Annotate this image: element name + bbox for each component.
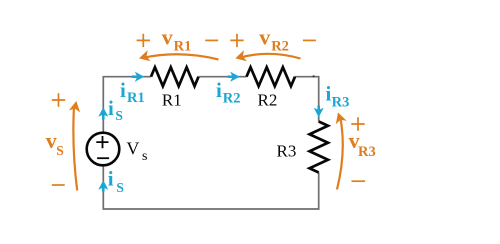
wire top-left segment <box>103 77 151 133</box>
minus sign v_R3 <box>352 180 366 182</box>
svg-text:R2: R2 <box>223 91 241 107</box>
minus sign v_R2 <box>303 39 316 41</box>
svg-text:R1: R1 <box>127 90 145 106</box>
svg-text:S: S <box>115 108 123 123</box>
svg-text:R1: R1 <box>174 38 192 54</box>
current arrow i_R1 on top wire <box>132 72 145 82</box>
svg-text:i: i <box>326 82 332 106</box>
svg-text:R3: R3 <box>277 141 297 160</box>
svg-text:S: S <box>56 143 64 158</box>
arrowhead v_R1 <box>138 50 151 64</box>
voltage arc v_R2 <box>240 54 301 59</box>
svg-text:R1: R1 <box>162 91 182 110</box>
svg-text:s: s <box>142 149 147 164</box>
current arrow i_S below source (up) <box>98 180 108 191</box>
wire top right segment and right drop to R3 <box>295 77 319 122</box>
svg-text:R2: R2 <box>258 90 278 109</box>
junction dot on top wire <box>312 75 314 77</box>
voltage arc v_R3 <box>337 116 343 190</box>
minus sign v_S <box>52 184 65 186</box>
plus sign v_R2 <box>230 34 243 47</box>
minus sign inside source <box>97 157 109 159</box>
current arrow i_S above source (up) <box>98 107 108 119</box>
svg-text:i: i <box>108 166 114 190</box>
resistor R2 <box>247 67 296 86</box>
svg-text:i: i <box>216 78 222 102</box>
plus sign v_R1 <box>137 34 150 47</box>
resistor R1 <box>151 67 199 86</box>
wire top middle segment between R1 and R2 <box>199 76 247 78</box>
plus sign v_R3 <box>351 117 364 130</box>
arrowhead v_R3 <box>333 111 347 125</box>
minus sign v_R1 <box>205 39 218 41</box>
arrowhead v_S <box>69 100 82 112</box>
svg-text:i: i <box>108 96 114 120</box>
current arrow i_R2 on top wire <box>228 72 240 82</box>
arrowhead v_R2 <box>234 50 247 64</box>
svg-text:R3: R3 <box>358 144 376 160</box>
svg-text:S: S <box>116 180 124 195</box>
wire right below R3, bottom, left up to source <box>103 166 318 210</box>
svg-text:v: v <box>162 24 173 49</box>
svg-text:v: v <box>259 24 270 49</box>
voltage arc v_S <box>73 106 77 191</box>
resistor R3 <box>310 122 329 173</box>
voltage source V1 circle <box>87 133 120 166</box>
voltage arc v_R1 <box>143 54 219 59</box>
svg-text:V: V <box>126 139 139 159</box>
plus sign inside source <box>96 136 108 148</box>
plus sign v_S <box>52 93 65 106</box>
svg-text:R2: R2 <box>271 38 289 54</box>
svg-text:v: v <box>46 128 57 153</box>
svg-text:R3: R3 <box>332 95 350 111</box>
svg-text:i: i <box>120 78 126 102</box>
current arrow i_R3 on right wire (down) <box>314 106 324 118</box>
